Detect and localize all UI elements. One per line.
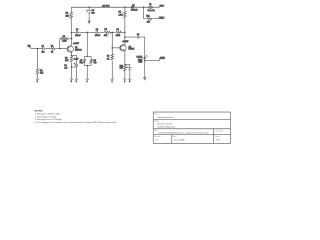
LED LED1 bbox=[144, 55, 148, 58]
svg-text:R4: R4 bbox=[65, 12, 68, 14]
trimmer C7 bbox=[83, 56, 86, 65]
svg-text:1. Max gain is 76dB at 1kHz.: 1. Max gain is 76dB at 1kHz. bbox=[35, 113, 61, 116]
wire emitter grounds bbox=[71, 67, 76, 79]
node R3-collector bbox=[71, 38, 73, 40]
resistor R11 bbox=[147, 17, 153, 20]
svg-text:4. DC voltages are for referen: 4. DC voltages are for reference only, m… bbox=[35, 121, 117, 124]
svg-text:0.1: 0.1 bbox=[155, 140, 158, 142]
ground bbox=[75, 78, 78, 80]
svg-text:Revision:: Revision: bbox=[154, 136, 161, 138]
svg-text:File:: File: bbox=[154, 130, 158, 132]
ground bbox=[86, 78, 89, 80]
svg-text:3. Max input level is 5.2mVp-p: 3. Max input level is 5.2mVp-p. bbox=[35, 118, 63, 121]
svg-text:0: 0 bbox=[76, 81, 77, 83]
capacitor C3 bbox=[76, 30, 79, 33]
node emitter2 join bbox=[124, 64, 125, 65]
notes block bbox=[35, 111, 117, 124]
svg-text:100K: 100K bbox=[116, 35, 121, 37]
node chain-R5 bbox=[124, 32, 126, 34]
svg-text:Date:: Date: bbox=[173, 135, 177, 138]
svg-text:Author:: Author: bbox=[154, 120, 160, 123]
port IN bbox=[28, 47, 31, 49]
svg-text:C9: C9 bbox=[137, 34, 139, 36]
ground bbox=[70, 78, 73, 80]
capacitor C5 bbox=[88, 7, 91, 21]
wire to base bbox=[55, 48, 67, 50]
svg-text:22p: 22p bbox=[79, 62, 82, 64]
svg-text:C4: C4 bbox=[96, 29, 98, 31]
svg-text:+1.1V: +1.1V bbox=[73, 59, 79, 61]
svg-text:+12 VDC: +12 VDC bbox=[102, 5, 110, 7]
ground bbox=[111, 78, 114, 80]
ground bbox=[123, 78, 126, 80]
svg-text:100nF: 100nF bbox=[95, 35, 101, 37]
svg-text:10n: 10n bbox=[41, 52, 44, 54]
diode D1 bbox=[132, 6, 137, 8]
svg-text:0: 0 bbox=[37, 81, 38, 83]
svg-text:OUT1: OUT1 bbox=[160, 58, 165, 60]
node input junction bbox=[37, 48, 39, 50]
svg-text:+8.46V: +8.46V bbox=[122, 41, 129, 43]
svg-text:R5: R5 bbox=[118, 12, 121, 14]
svg-text:10K: 10K bbox=[65, 60, 69, 62]
ground bbox=[128, 78, 131, 80]
svg-text:BZ1+: BZ1+ bbox=[160, 17, 165, 19]
svg-text:R3: R3 bbox=[63, 36, 65, 38]
svg-text:R7: R7 bbox=[105, 29, 107, 31]
svg-text:Fuse 1A: Fuse 1A bbox=[148, 9, 156, 12]
node base junction bbox=[59, 48, 61, 50]
wire input bbox=[31, 48, 42, 50]
resistor R6 bbox=[70, 55, 72, 67]
node rail-battery branch bbox=[143, 7, 145, 9]
svg-text:0: 0 bbox=[124, 81, 125, 83]
svg-text:17-Jun-2008: 17-Jun-2008 bbox=[174, 140, 184, 142]
svg-text:4R7: 4R7 bbox=[147, 21, 150, 23]
svg-text:1K: 1K bbox=[51, 52, 54, 54]
resistor R8 bbox=[116, 31, 122, 33]
svg-text:D:\Users\Chuck Benak\Documents: D:\Users\Chuck Benak\Documents\... Cryst… bbox=[158, 132, 208, 135]
wire C9 branch bbox=[125, 37, 145, 60]
wire crystal bottom bbox=[84, 56, 91, 79]
svg-text:+: + bbox=[126, 66, 127, 68]
svg-text:+: + bbox=[86, 10, 87, 12]
resistor R9 bbox=[111, 54, 113, 80]
wire top +12V rail bbox=[71, 6, 159, 8]
svg-text:22p: 22p bbox=[93, 62, 96, 64]
capacitor C4 bbox=[96, 30, 99, 33]
node emitter join bbox=[71, 55, 73, 57]
svg-text:2N3904: 2N3904 bbox=[75, 49, 82, 51]
wire crystal drop bbox=[86, 32, 88, 56]
svg-text:0: 0 bbox=[71, 81, 72, 83]
svg-text:1 of 1: 1 of 1 bbox=[216, 140, 221, 142]
svg-text:0: 0 bbox=[112, 81, 113, 83]
svg-text:R9: R9 bbox=[107, 56, 109, 58]
svg-text:Document: Document bbox=[216, 129, 224, 132]
capacitor C1 bbox=[42, 47, 45, 50]
svg-text:F1: F1 bbox=[149, 4, 151, 6]
svg-text:2. Max output is 6.2Vpp.: 2. Max output is 6.2Vpp. bbox=[35, 115, 57, 118]
title block bbox=[153, 112, 230, 143]
svg-text:4u7: 4u7 bbox=[64, 67, 67, 69]
resistor R5 bbox=[124, 7, 127, 32]
svg-text:47K: 47K bbox=[104, 35, 108, 37]
wire level down bbox=[144, 60, 146, 77]
wire out bbox=[145, 59, 165, 61]
wire chain bbox=[71, 31, 124, 33]
wire bbox=[45, 48, 51, 50]
port BT1+ bbox=[159, 6, 164, 8]
node out bbox=[144, 60, 146, 62]
capacitor C10 bbox=[125, 65, 132, 80]
transistor Q1 bbox=[67, 46, 73, 52]
port BT1- bbox=[159, 17, 165, 19]
resistor R3 bbox=[60, 37, 72, 48]
svg-text:R6: R6 bbox=[65, 57, 67, 59]
node rail-C5 bbox=[88, 7, 90, 9]
svg-text:RED: RED bbox=[138, 61, 142, 63]
trimmer C8 bbox=[89, 56, 92, 65]
resistor R4 bbox=[70, 7, 73, 32]
transistor Q2 bbox=[120, 45, 126, 51]
wire mid vertical bbox=[112, 32, 120, 53]
fuse F1 bbox=[149, 6, 152, 8]
svg-text:10u: 10u bbox=[92, 13, 95, 15]
svg-text:1N4148: 1N4148 bbox=[131, 10, 138, 12]
svg-text:C1: C1 bbox=[41, 45, 43, 47]
svg-text:47K: 47K bbox=[40, 73, 44, 75]
svg-text:1.5K: 1.5K bbox=[118, 15, 123, 17]
svg-text:Centellax Engineering: Centellax Engineering bbox=[157, 126, 175, 129]
svg-text:100nF: 100nF bbox=[75, 35, 81, 37]
svg-text:Sheets:: Sheets: bbox=[215, 135, 221, 138]
node mid divider bbox=[112, 32, 114, 34]
svg-text:R11: R11 bbox=[146, 15, 149, 17]
svg-text:BT1: BT1 bbox=[160, 6, 163, 8]
resistor R2 bbox=[36, 49, 38, 80]
svg-text:100: 100 bbox=[120, 68, 123, 70]
svg-text:NOTES:: NOTES: bbox=[35, 111, 44, 113]
svg-text:IN1: IN1 bbox=[28, 45, 31, 47]
svg-text:R8: R8 bbox=[116, 29, 118, 31]
node crystal tap bbox=[87, 32, 89, 34]
svg-text:D1: D1 bbox=[132, 5, 134, 7]
svg-text:22K: 22K bbox=[65, 15, 69, 17]
svg-text:C3: C3 bbox=[76, 29, 78, 31]
svg-text:R2: R2 bbox=[40, 70, 42, 72]
svg-text:Title:: Title: bbox=[154, 113, 158, 116]
svg-text:0: 0 bbox=[129, 81, 130, 83]
svg-text:2.2M: 2.2M bbox=[62, 40, 67, 42]
svg-text:+: + bbox=[74, 63, 75, 65]
svg-text:0: 0 bbox=[87, 81, 88, 83]
wire battery lower branch bbox=[144, 7, 160, 18]
node collector chain bbox=[71, 32, 73, 34]
resistor R1 bbox=[51, 47, 56, 49]
svg-text:1K: 1K bbox=[107, 58, 110, 60]
node collector tap bbox=[124, 36, 126, 38]
svg-text:Crystal tester circuit: Crystal tester circuit bbox=[157, 116, 173, 119]
svg-text:BC547: BC547 bbox=[129, 49, 135, 51]
svg-text:R1: R1 bbox=[51, 45, 53, 47]
node base Q2 bbox=[112, 47, 114, 49]
ground bbox=[36, 78, 39, 80]
resistor R10 bbox=[124, 65, 126, 79]
svg-text:Vincent G. Barnes: Vincent G. Barnes bbox=[157, 123, 172, 126]
capacitor C9 bbox=[137, 35, 138, 38]
resistor R7 bbox=[104, 31, 110, 33]
node top split bbox=[87, 56, 88, 57]
capacitor C6 bbox=[71, 55, 78, 67]
node rail-R5 bbox=[124, 7, 126, 9]
svg-text:LEVEL: LEVEL bbox=[136, 56, 143, 58]
svg-text:+4.57V: +4.57V bbox=[73, 43, 80, 45]
